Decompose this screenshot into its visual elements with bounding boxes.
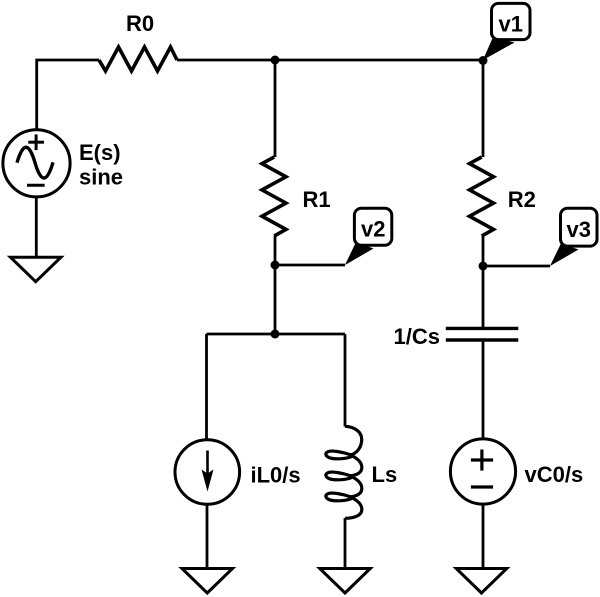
svg-text:v1: v1 — [498, 11, 522, 36]
svg-text:sine: sine — [79, 164, 123, 189]
svg-text:1/Cs: 1/Cs — [394, 324, 440, 349]
svg-text:R1: R1 — [303, 187, 331, 212]
svg-text:vC0/s: vC0/s — [525, 462, 584, 487]
svg-text:R2: R2 — [508, 187, 536, 212]
svg-text:Ls: Ls — [372, 462, 398, 487]
svg-text:iL0/s: iL0/s — [251, 462, 301, 487]
svg-text:R0: R0 — [126, 11, 154, 36]
svg-text:E(s): E(s) — [79, 140, 121, 165]
svg-text:v2: v2 — [361, 217, 385, 242]
svg-text:v3: v3 — [566, 217, 590, 242]
